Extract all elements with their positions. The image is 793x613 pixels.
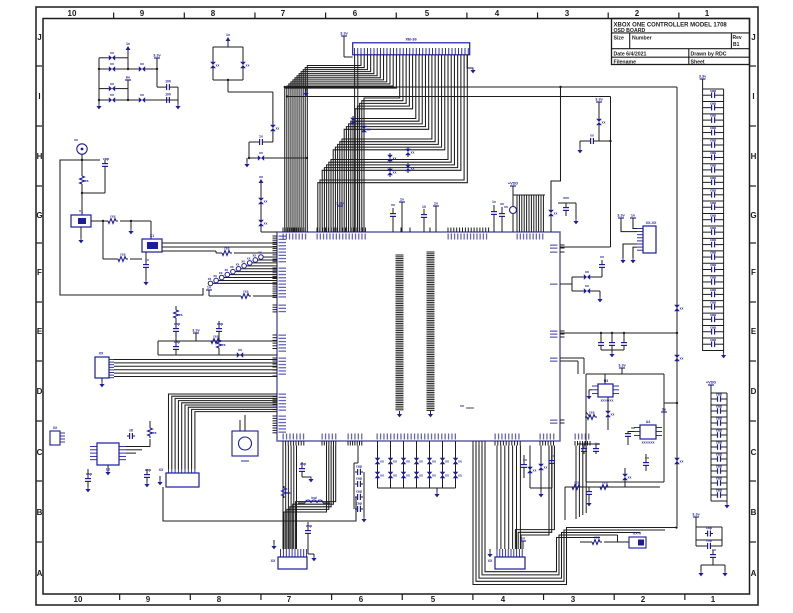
diode pair D15 esd row2 bbox=[375, 470, 384, 480]
power 3.3v on box bbox=[618, 364, 626, 375]
svg-text:xx: xx bbox=[680, 357, 684, 361]
diode pair D20 esd row2 bbox=[440, 470, 449, 480]
svg-text:6: 6 bbox=[353, 9, 358, 18]
svg-text:5: 5 bbox=[431, 595, 436, 604]
diode pair D28b right of comb bbox=[548, 208, 557, 232]
wire J2 to U1 line5 bbox=[114, 372, 277, 374]
svg-text:1v: 1v bbox=[434, 202, 439, 206]
ground group 3 left bbox=[698, 571, 703, 577]
resistor R12 bbox=[598, 481, 610, 490]
capacitor C49 ladder1 bbox=[703, 325, 724, 334]
svg-text:xx: xx bbox=[500, 202, 504, 206]
svg-text:xx: xx bbox=[460, 404, 464, 408]
diode pair D25 on bus bbox=[405, 163, 414, 173]
svg-text:9: 9 bbox=[140, 9, 145, 18]
microphone MK1 bbox=[74, 138, 87, 154]
capacitor C45 ladder1 bbox=[703, 276, 724, 285]
ic U1 inner pin labels top bbox=[283, 234, 544, 240]
svg-text:xx: xx bbox=[411, 167, 415, 171]
svg-text:XB-36: XB-36 bbox=[405, 37, 417, 42]
wire ladder1 rung 21 bbox=[703, 349, 724, 351]
svg-text:3.3v: 3.3v bbox=[618, 364, 626, 368]
wire ladder2 rung 8 bbox=[711, 488, 727, 490]
test point TP7 bbox=[241, 259, 277, 268]
svg-text:cap: cap bbox=[710, 176, 716, 180]
diode pair D40 right of J5 bbox=[527, 465, 536, 475]
ic U1 top edge pins bbox=[283, 228, 502, 233]
svg-text:100: 100 bbox=[165, 93, 171, 97]
svg-text:C: C bbox=[37, 448, 43, 457]
wire ladder1 rung 10 bbox=[703, 213, 724, 215]
diode pair D23 on bus bbox=[405, 147, 414, 157]
svg-text:xx: xx bbox=[258, 251, 262, 255]
svg-text:cap: cap bbox=[710, 114, 716, 118]
wire U1 right pin row 284 bbox=[560, 277, 572, 291]
power VDD comb above U1 bbox=[508, 182, 545, 233]
capacitor C63 bbox=[696, 539, 722, 550]
diode pair D8 esd row1 bbox=[375, 456, 384, 466]
svg-text:cap: cap bbox=[706, 539, 712, 543]
capacitor C44 ladder1 bbox=[703, 263, 724, 272]
svg-text:xx: xx bbox=[367, 128, 371, 132]
bus wires J3 to U1 nested fan bbox=[169, 394, 278, 469]
inductor L1 bbox=[298, 496, 330, 503]
svg-text:Number: Number bbox=[632, 36, 652, 42]
svg-text:xx: xx bbox=[391, 203, 395, 207]
test point TP3 bbox=[219, 271, 277, 280]
wire ladder1 rung 9 bbox=[703, 200, 724, 202]
svg-text:U3: U3 bbox=[604, 379, 609, 383]
wire U1 to rail B bbox=[560, 246, 611, 248]
svg-text:B1: B1 bbox=[733, 42, 740, 48]
capacitor C15 above U1 bbox=[491, 200, 497, 232]
capacitor C39 ladder1 bbox=[703, 201, 724, 210]
capacitor C10 bbox=[305, 522, 312, 554]
wire Y1 to R2 bbox=[91, 220, 106, 222]
svg-text:cap: cap bbox=[716, 417, 722, 421]
diode pair D6 bbox=[137, 93, 147, 103]
diode pair D10 esd row1 bbox=[401, 456, 410, 466]
svg-text:xx: xx bbox=[225, 268, 229, 272]
ground left of J3 bbox=[157, 476, 162, 485]
svg-text:cap: cap bbox=[356, 465, 362, 469]
svg-text:H: H bbox=[751, 152, 757, 161]
bus wires group B staircase from J1 to U1 bbox=[318, 55, 468, 232]
wire J2 to U1 line6 bbox=[114, 376, 277, 378]
svg-text:I: I bbox=[38, 92, 40, 101]
capacitor C6 near J3 bbox=[144, 468, 151, 487]
varistor RV1 bbox=[504, 195, 516, 232]
wire U3 feed bbox=[604, 374, 606, 384]
svg-text:C: C bbox=[751, 448, 757, 457]
svg-text:xx: xx bbox=[247, 256, 251, 260]
capacitor C56 ladder2 bbox=[711, 441, 727, 450]
ground cluster top right of U1 bbox=[573, 203, 578, 224]
capacitor C46 ladder1 bbox=[703, 288, 724, 297]
svg-text:xx: xx bbox=[585, 284, 589, 288]
svg-text:xx: xx bbox=[523, 458, 527, 462]
ground below C7 bbox=[85, 487, 90, 493]
svg-text:xx: xx bbox=[445, 460, 449, 464]
wire cluster C30 bottom bbox=[213, 70, 273, 92]
power 3.3v above U1 pin 340 bbox=[336, 202, 344, 233]
svg-text:xx: xx bbox=[380, 460, 384, 464]
wire mic bottom bbox=[81, 192, 105, 194]
ground below C26 bbox=[586, 501, 591, 507]
diode pair D34 right mid bbox=[596, 117, 605, 141]
capacitor C21 hanging bbox=[609, 333, 615, 350]
capacitor C28 above U1 bbox=[421, 205, 427, 232]
svg-text:1v: 1v bbox=[662, 408, 667, 412]
svg-text:xx: xx bbox=[208, 277, 212, 281]
diode pair D21 on bus bbox=[361, 124, 370, 134]
ground top-left cluster bbox=[96, 104, 101, 110]
test point TP4 bbox=[225, 268, 277, 277]
wire regulator bottom rail bbox=[565, 487, 660, 520]
resistor R5 below fan bbox=[239, 290, 277, 299]
wire ladder2 rung 3 bbox=[711, 428, 727, 430]
test point TP2 bbox=[213, 274, 277, 283]
svg-text:xx: xx bbox=[645, 456, 649, 460]
test point TP9 bbox=[253, 253, 277, 262]
wire ladder1 rung 6 bbox=[703, 163, 724, 165]
capacitor C11 bbox=[355, 465, 363, 476]
svg-text:xx: xx bbox=[264, 222, 268, 226]
svg-text:3.3v: 3.3v bbox=[153, 54, 161, 58]
ground below pin column 2 bbox=[428, 412, 433, 418]
wire ladder1 rung 16 bbox=[703, 287, 724, 289]
capacitor C20 hanging bbox=[598, 333, 604, 350]
wire rail B vertical bbox=[610, 97, 612, 248]
wire ladder1 rung 18 bbox=[703, 312, 724, 314]
resistor R1 mic bbox=[80, 174, 89, 215]
power 3.3v group 3 bbox=[692, 513, 700, 525]
wire ladder1 rung 12 bbox=[703, 237, 724, 239]
wire ladder2 rung 4 bbox=[711, 440, 727, 442]
ground cluster right of J5 bbox=[538, 492, 543, 498]
capacitor C2 bbox=[164, 93, 172, 104]
wire ladder2 rung 9 bbox=[711, 500, 727, 502]
capacitor C37 ladder1 bbox=[703, 176, 724, 185]
ground below Y1 bbox=[78, 227, 83, 243]
svg-text:cap: cap bbox=[716, 429, 722, 433]
svg-text:cap: cap bbox=[710, 251, 716, 255]
svg-text:xx: xx bbox=[445, 474, 449, 478]
svg-text:xx: xx bbox=[411, 151, 415, 155]
svg-text:3.3v: 3.3v bbox=[692, 513, 700, 517]
ic U1 bottom edge pins bbox=[283, 441, 590, 446]
svg-text:B: B bbox=[751, 508, 757, 517]
capacitor C33 ladder1 bbox=[703, 126, 724, 135]
capacitor C42 ladder1 bbox=[703, 238, 724, 247]
connector J8 far left bbox=[50, 426, 65, 445]
svg-text:xx: xx bbox=[458, 460, 462, 464]
capacitor C62 bbox=[705, 526, 713, 537]
svg-text:xx: xx bbox=[458, 474, 462, 478]
wire U1 right pins to regulator box bbox=[560, 358, 584, 374]
svg-text:cap: cap bbox=[710, 226, 716, 230]
svg-text:xx: xx bbox=[110, 62, 114, 66]
test point TP1 bbox=[208, 277, 277, 286]
svg-text:cap: cap bbox=[716, 453, 722, 457]
wire ladder2 rung 7 bbox=[711, 476, 727, 478]
svg-text:xx: xx bbox=[110, 93, 114, 97]
power 3.3v top-left bbox=[153, 54, 161, 70]
svg-text:cap: cap bbox=[145, 468, 151, 472]
power 1v above U1 pin 436 bbox=[433, 202, 439, 233]
svg-text:cap: cap bbox=[217, 322, 223, 326]
wire group 3 bottom bbox=[701, 565, 725, 571]
svg-text:cap: cap bbox=[174, 322, 180, 326]
title block bbox=[612, 19, 750, 66]
svg-text:xx: xx bbox=[680, 307, 684, 311]
diode pair D41 on rail A bbox=[674, 456, 683, 466]
capacitor C41 ladder1 bbox=[703, 226, 724, 235]
wire ladder2 rung 2 bbox=[711, 416, 727, 418]
diode pair D26b on rail A bbox=[674, 353, 683, 363]
ic U1 inner pin labels left bbox=[279, 236, 287, 433]
wire ladder1 rung 13 bbox=[703, 250, 724, 252]
diode pair D3 bbox=[137, 62, 147, 72]
svg-text:3.3v: 3.3v bbox=[617, 214, 625, 218]
ground at J1 right end bbox=[467, 55, 475, 74]
svg-text:3: 3 bbox=[571, 595, 576, 604]
svg-text:Size: Size bbox=[614, 36, 624, 42]
wire ladder1 rung 2 bbox=[703, 113, 724, 115]
ic U1 left edge pins bbox=[273, 236, 278, 433]
bus wires wrap around right bbox=[473, 446, 678, 585]
ic U1 internal pin column 2 bbox=[427, 252, 435, 414]
ground left of U3 bbox=[586, 390, 592, 400]
svg-text:xx: xx bbox=[238, 348, 242, 352]
capacitor C12 bbox=[355, 477, 363, 488]
capacitor C13 bbox=[355, 490, 363, 501]
capacitor C53 ladder2 bbox=[711, 405, 727, 414]
svg-text:10: 10 bbox=[74, 595, 83, 604]
buzzer BZ1 bbox=[232, 431, 258, 463]
svg-text:xx: xx bbox=[216, 64, 220, 68]
ground below pin column 1 bbox=[397, 412, 402, 418]
row labels right bbox=[750, 33, 757, 578]
capacitor C47 ladder1 bbox=[703, 300, 724, 309]
svg-text:xx: xx bbox=[712, 548, 716, 552]
wire ladder1 rung 5 bbox=[703, 150, 724, 152]
ground ladder 2 bbox=[724, 501, 729, 508]
ic U1 inner pin labels right bbox=[550, 245, 558, 424]
capacitor C19 bbox=[599, 255, 605, 270]
row labels left bbox=[36, 33, 43, 578]
ground below C21 bbox=[601, 350, 624, 357]
capacitor C5 row E bbox=[173, 340, 180, 355]
svg-text:xxxx: xxxx bbox=[241, 459, 249, 463]
svg-text:xx: xx bbox=[419, 460, 423, 464]
wire cap column right rail bbox=[363, 472, 365, 517]
power 1v at J5 bbox=[520, 537, 526, 550]
svg-text:6: 6 bbox=[359, 595, 364, 604]
wire bus tap to right rail B bbox=[286, 95, 611, 97]
svg-text:10: 10 bbox=[422, 205, 426, 209]
capacitor C16 above U1 bbox=[499, 202, 505, 232]
svg-text:XX-XX: XX-XX bbox=[646, 221, 657, 225]
diode pair D9 esd row1 bbox=[388, 456, 397, 466]
ground J7 b bbox=[630, 258, 635, 264]
wire junction at y158 bbox=[249, 157, 308, 159]
capacitor C22 hanging bbox=[621, 333, 627, 350]
wire ladder1 rung 4 bbox=[703, 138, 724, 140]
wire top-left cluster rails bbox=[98, 58, 178, 104]
svg-text:B: B bbox=[37, 508, 43, 517]
capacitor C4 bbox=[143, 252, 149, 280]
diode pair D16 esd row2 bbox=[388, 470, 397, 480]
bus wires U1 group 540 wrap to J5 right bbox=[515, 446, 554, 550]
capacitor C32 ladder1 bbox=[703, 114, 724, 123]
net label NC near pin column bbox=[460, 404, 474, 408]
power 3.3v row E bbox=[192, 329, 200, 342]
svg-text:xx: xx bbox=[544, 466, 548, 470]
connector J1 top flex cable bbox=[353, 37, 470, 55]
svg-text:cap: cap bbox=[356, 490, 362, 494]
ground J7 a bbox=[620, 258, 625, 264]
resistor R6 row E bbox=[209, 335, 221, 344]
svg-text:xx: xx bbox=[140, 93, 144, 97]
capacitor C8 crystal bbox=[127, 429, 135, 440]
svg-text:4: 4 bbox=[495, 9, 500, 18]
ground arrow top-left right bbox=[175, 100, 180, 109]
svg-text:cap: cap bbox=[710, 338, 716, 342]
capacitor C5b chain left bbox=[173, 322, 180, 341]
ground ladder 1 bbox=[721, 351, 726, 358]
svg-text:1: 1 bbox=[711, 595, 716, 604]
svg-text:J: J bbox=[37, 33, 41, 42]
wire J2 to U1 line3 bbox=[114, 365, 277, 367]
bus wires U1 to J4 straight bbox=[283, 446, 297, 550]
cluster right of J5 wires bbox=[530, 446, 552, 493]
capacitor C26 bbox=[586, 487, 592, 501]
svg-text:cap: cap bbox=[710, 238, 716, 242]
svg-text:xtl: xtl bbox=[129, 429, 133, 433]
wire left row E upper bbox=[158, 341, 277, 355]
wire ladder1 rung 14 bbox=[703, 262, 724, 264]
svg-text:1v: 1v bbox=[595, 442, 599, 446]
resistor R9 bottom right bbox=[580, 536, 629, 545]
diode pair D7 row E bbox=[235, 348, 245, 358]
bus wires U1 to J5 bbox=[497, 446, 520, 550]
svg-text:XX: XX bbox=[488, 559, 493, 563]
svg-text:xx: xx bbox=[213, 274, 217, 278]
capacitor C9 above J4 bbox=[299, 462, 306, 477]
svg-text:cap: cap bbox=[710, 276, 716, 280]
connector J6 small bbox=[629, 532, 646, 549]
diode pair D19 esd row2 bbox=[427, 470, 436, 480]
wire ladder2 rung 6 bbox=[711, 464, 727, 466]
power 1v at U4 bbox=[661, 408, 667, 428]
svg-text:xxxxxxx: xxxxxxx bbox=[601, 399, 614, 403]
svg-text:Y1: Y1 bbox=[79, 210, 83, 214]
test point TP5 bbox=[230, 265, 277, 274]
wire ladder1 rung 1 bbox=[703, 100, 724, 102]
svg-text:cap: cap bbox=[300, 462, 306, 466]
svg-text:cap: cap bbox=[710, 139, 716, 143]
svg-text:E: E bbox=[37, 327, 43, 336]
wire mic outer loop bbox=[60, 160, 203, 295]
power flag 1v top-left bbox=[126, 42, 131, 58]
svg-text:cap: cap bbox=[710, 201, 716, 205]
led flag chain D31 bbox=[259, 175, 264, 196]
svg-text:1v: 1v bbox=[126, 42, 130, 46]
svg-text:+VDD: +VDD bbox=[706, 381, 716, 385]
svg-text:I: I bbox=[752, 92, 754, 101]
capacitor C43 ladder1 bbox=[703, 251, 724, 260]
svg-text:cap: cap bbox=[710, 300, 716, 304]
ground group 3 right bbox=[722, 571, 727, 577]
svg-text:XX: XX bbox=[271, 559, 276, 563]
wire ladder2 rung 1 bbox=[711, 404, 727, 406]
svg-text:4: 4 bbox=[501, 595, 506, 604]
resistor R2 bbox=[106, 215, 151, 224]
wire J3 loop to center bbox=[163, 487, 356, 521]
diode pair D4 bbox=[107, 82, 117, 92]
resistor R10 bbox=[585, 411, 597, 420]
svg-text:xx: xx bbox=[230, 265, 234, 269]
diode pair D35 bbox=[572, 268, 602, 280]
power 3.3v ladder 1 bbox=[699, 75, 707, 90]
capacitor C52 ladder2 bbox=[711, 393, 727, 402]
svg-text:xx: xx bbox=[356, 120, 360, 124]
ground left of J5 bbox=[487, 549, 492, 557]
svg-text:xx: xx bbox=[259, 151, 263, 155]
svg-text:100: 100 bbox=[165, 80, 171, 84]
wire ladder2 rung 0 bbox=[711, 392, 727, 394]
svg-text:xx: xx bbox=[74, 138, 78, 142]
svg-text:1v: 1v bbox=[631, 214, 636, 218]
ic U4 regulator bbox=[634, 420, 662, 445]
svg-text:cap: cap bbox=[710, 313, 716, 317]
diode pair D37 below U3 bbox=[605, 397, 614, 430]
svg-text:G: G bbox=[36, 211, 42, 220]
svg-text:1v: 1v bbox=[259, 135, 263, 139]
ground below J2 bbox=[99, 378, 104, 387]
svg-text:cap: cap bbox=[710, 188, 716, 192]
svg-text:cap: cap bbox=[356, 502, 362, 506]
wire J2 to U1 line1 bbox=[114, 359, 277, 361]
bus wires U1 group 575 down bbox=[576, 446, 586, 520]
capacitor C3 mic bbox=[102, 157, 109, 193]
svg-text:xx: xx bbox=[246, 64, 250, 68]
diode pair D28 bbox=[240, 60, 249, 70]
capacitor C38 ladder1 bbox=[703, 188, 724, 197]
ground flag below tap bbox=[303, 87, 308, 96]
capacitor C29 right of J5 bbox=[549, 454, 555, 466]
svg-text:cap: cap bbox=[716, 489, 722, 493]
oscillator X1 bbox=[142, 234, 162, 252]
svg-text:cap: cap bbox=[710, 89, 716, 93]
svg-text:xx: xx bbox=[236, 262, 240, 266]
svg-text:xx: xx bbox=[110, 51, 114, 55]
svg-text:cap: cap bbox=[716, 405, 722, 409]
resistor R14 mid chain bbox=[217, 338, 226, 355]
svg-text:xx: xx bbox=[419, 474, 423, 478]
svg-text:XX: XX bbox=[159, 468, 164, 472]
wire group 3 rails bbox=[696, 524, 722, 546]
svg-text:3.3v: 3.3v bbox=[699, 75, 707, 79]
svg-text:xx: xx bbox=[600, 255, 604, 259]
svg-text:2: 2 bbox=[641, 595, 646, 604]
test point TP8 bbox=[247, 256, 277, 265]
capacitor C48 ladder1 bbox=[703, 313, 724, 322]
svg-text:E: E bbox=[751, 327, 757, 336]
svg-text:1v: 1v bbox=[492, 200, 496, 204]
bus wires group A from J1 to U1 bbox=[285, 55, 397, 232]
